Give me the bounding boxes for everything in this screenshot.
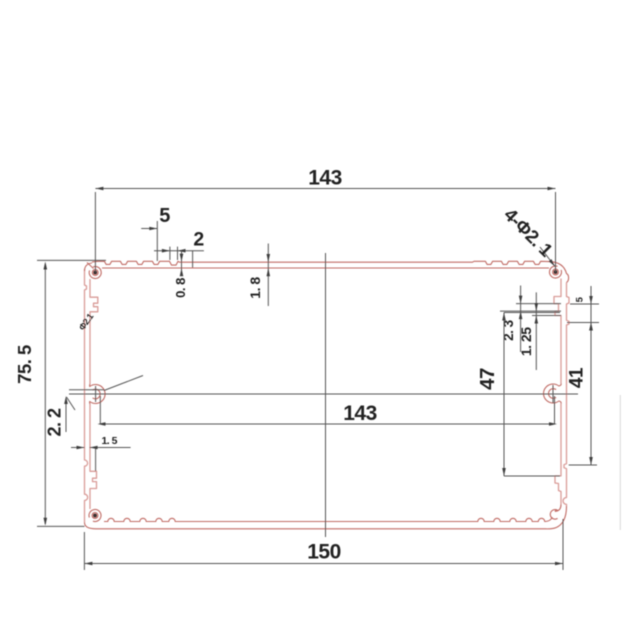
svg-text:1. 8: 1. 8	[247, 277, 263, 299]
dim 1.25	[532, 292, 561, 370]
faint page edge line	[619, 395, 621, 530]
dim top 143	[95, 189, 555, 273]
svg-text:2. 2: 2. 2	[45, 408, 65, 437]
dim 75.5 overall height	[37, 260, 106, 526]
screw boss bottom-left (open curl + hole)	[89, 509, 101, 521]
bottom-right curl inner and hook	[555, 504, 561, 511]
svg-text:143: 143	[343, 402, 377, 425]
screw boss top-left (open curl + hole)	[89, 267, 101, 279]
svg-text:0. 8: 0. 8	[173, 278, 188, 298]
svg-text:1. 25: 1. 25	[518, 327, 534, 356]
leader line middle-left boss	[104, 376, 143, 391]
profile bottom-right curl outer + bottom outer edge + bottom-left corner	[85, 506, 567, 529]
profile right wall outer (vertical)	[563, 283, 569, 507]
svg-text:150: 150	[307, 541, 341, 564]
label 4-Phi2.1 with leader	[540, 247, 555, 267]
dim 150 overall width	[84, 519, 563, 570]
svg-text:2. 3: 2. 3	[501, 319, 516, 341]
dim 5 right	[567, 286, 599, 465]
profile right wall inner with PCB slot fingers	[554, 279, 561, 505]
svg-text:2: 2	[193, 229, 204, 251]
screw boss middle-right (C-bulge)	[544, 384, 562, 404]
profile left wall inner with PCB slot fingers	[90, 279, 98, 509]
svg-text:1. 5: 1. 5	[101, 435, 117, 447]
dim 2 serration notch	[154, 247, 204, 260]
screw boss middle-left (C-bulge)	[90, 384, 106, 404]
profile top wall inner line	[102, 267, 549, 269]
boss center ticks	[96, 385, 553, 403]
svg-text:41: 41	[567, 367, 588, 388]
top-left corner slit	[87, 263, 94, 269]
svg-text:47: 47	[476, 368, 499, 390]
dim middle 143 hole spacing	[69, 390, 578, 424]
dim 47	[504, 313, 560, 477]
top-left corner arc	[85, 263, 93, 271]
dim 0.8 serration depth	[182, 251, 193, 275]
svg-text:143: 143	[308, 167, 342, 190]
dim 2.3	[500, 286, 561, 353]
dim 41	[589, 323, 593, 331]
svg-text:75. 5: 75. 5	[14, 345, 35, 384]
profile top outer edge with serrations	[92, 261, 569, 282]
profile bottom wall inner line with bumps	[104, 518, 546, 521]
dim 1.5 wall thickness	[71, 448, 131, 472]
dim 2.2	[66, 397, 75, 432]
dim 5 top-left	[141, 221, 157, 261]
profile left wall outer (vertical)	[85, 269, 88, 523]
svg-text:5: 5	[159, 205, 170, 227]
dim 1.8 top wall thickness	[267, 244, 269, 307]
screw boss top-right (open curl + hole)	[549, 266, 561, 278]
vertical centerline	[325, 253, 327, 537]
